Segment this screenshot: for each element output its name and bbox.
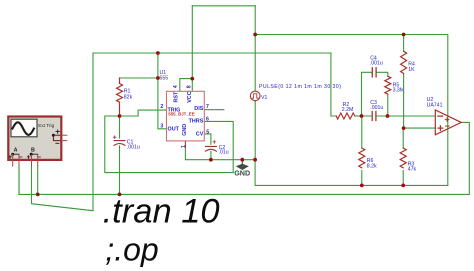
svg-text:3: 3	[160, 124, 163, 130]
svg-text:47k: 47k	[408, 166, 417, 172]
wire left drop with diagonal to scope B+	[32, 53, 94, 211]
wire R1 horizontal tee	[120, 77, 158, 79]
svg-text:6: 6	[206, 117, 209, 123]
wire top rail VCC net	[192, 5, 255, 7]
svg-text:555: 555	[160, 75, 169, 81]
IC U1 555 box	[167, 91, 205, 141]
wire TRIG jog to pin 2	[120, 110, 167, 116]
wire VCC drop to 555 pins 4 and 8	[180, 6, 193, 92]
wire C2 leads from CV pin	[205, 134, 211, 160]
junction OUT rail x158	[156, 51, 160, 55]
junction node B	[386, 114, 390, 118]
junction V1 plus rail	[253, 33, 257, 37]
svg-text:B: B	[31, 148, 35, 154]
svg-text:2.2M: 2.2M	[342, 107, 354, 113]
wire R2 to node A	[355, 115, 361, 117]
junction TRIG node	[118, 114, 122, 118]
junction R3 bottom	[401, 184, 405, 188]
junction node A	[360, 114, 364, 118]
svg-text:OUT: OUT	[168, 127, 180, 133]
svg-text:1K: 1K	[408, 67, 415, 73]
junction C1 bottom rail	[118, 193, 122, 197]
wire V1 top lead	[254, 6, 256, 91]
op-amp U2 UA741	[435, 110, 461, 135]
junction R4 top	[402, 33, 406, 37]
wire C3 leads	[362, 115, 388, 117]
svg-text:.001u: .001u	[370, 61, 383, 67]
resistor R4 with leads	[403, 35, 405, 129]
svg-text:V1: V1	[261, 95, 267, 101]
wire long bottom rail from scope to opamp output	[19, 122, 469, 194]
resistor R2	[336, 113, 355, 119]
svg-text:3.3M: 3.3M	[393, 88, 405, 94]
svg-text:.tran 10: .tran 10	[103, 193, 220, 231]
wire 555 pin1 stub	[184, 141, 186, 147]
svg-text:DIS: DIS	[194, 106, 203, 112]
svg-text:GND: GND	[182, 124, 188, 136]
junction plus input node	[402, 126, 406, 130]
svg-text:8.2k: 8.2k	[367, 164, 377, 170]
wire DIS stub	[205, 109, 224, 111]
svg-text:.001u: .001u	[127, 144, 140, 150]
wire scope terminal stubs	[13, 154, 38, 166]
junction GND tap	[240, 158, 244, 162]
resistor R5	[385, 76, 391, 94]
svg-text:5: 5	[206, 130, 209, 136]
resistor R3 with leads	[402, 128, 404, 185]
junction scope B minus	[36, 193, 40, 197]
svg-text:CV: CV	[196, 132, 204, 138]
junction VCC pins	[190, 77, 194, 81]
capacitor C1	[113, 136, 125, 146]
wire C1 vertical	[119, 116, 121, 194]
svg-text:.001u: .001u	[370, 105, 383, 111]
svg-text:Ext Trig: Ext Trig	[38, 123, 54, 128]
svg-text:82k: 82k	[124, 94, 133, 100]
svg-text:1: 1	[181, 145, 187, 148]
wire C4 R5 branch	[362, 72, 388, 116]
svg-text:2: 2	[160, 104, 163, 110]
svg-text:.01u: .01u	[219, 150, 229, 156]
capacitor C2	[205, 141, 216, 152]
svg-text:RST: RST	[174, 91, 180, 102]
svg-text:VCC: VCC	[187, 91, 193, 102]
resistor R1	[117, 78, 123, 116]
wire R2 drop from OUT rail	[331, 53, 336, 116]
wire vertical x158 to OUT pin3	[158, 53, 167, 129]
wire 555 OUT rail y53	[93, 52, 331, 54]
resistor R6 with leads	[361, 116, 363, 185]
svg-text:A: A	[14, 148, 18, 154]
junction R1 tee	[156, 76, 160, 80]
svg-text:8: 8	[186, 85, 192, 88]
pulse source V1	[250, 91, 260, 101]
wire node B to opamp inverting input	[388, 115, 436, 117]
capacitor C4	[372, 68, 376, 77]
svg-text:GND: GND	[234, 169, 250, 178]
svg-text:7: 7	[206, 104, 209, 110]
svg-text:;.op: ;.op	[105, 231, 158, 267]
svg-text:555_BJT_EE: 555_BJT_EE	[168, 112, 194, 117]
svg-text:UA741: UA741	[427, 103, 443, 109]
wire scope A minus drop	[18, 166, 20, 194]
wire THRS down and left to TRIG node	[205, 121, 233, 172]
ground	[234, 160, 250, 178]
wire plus input to opamp	[404, 127, 436, 129]
wire TRIG node left drop	[105, 116, 233, 173]
svg-text:PULSE(0 12 1m 1m 1m 30 30): PULSE(0 12 1m 1m 1m 30 30)	[259, 84, 341, 90]
wire ground rail	[255, 160, 448, 186]
wire V1 bottom lead	[254, 101, 256, 160]
svg-text:4: 4	[173, 85, 179, 88]
svg-text:THRS: THRS	[189, 118, 204, 124]
oscilloscope XSC1	[8, 117, 67, 160]
junction V1 minus	[253, 158, 257, 162]
junction R6 bottom	[360, 184, 364, 188]
wire gnd horizontal y160	[185, 147, 255, 159]
wire plus supply rail to R4 and opamp V+	[255, 35, 448, 186]
junction C2 bottom	[209, 158, 213, 162]
capacitor C3	[372, 112, 376, 121]
